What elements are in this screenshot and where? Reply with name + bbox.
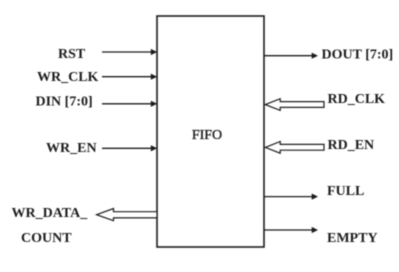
svg-text:DOUT [7:0]: DOUT [7:0]: [322, 48, 394, 63]
svg-text:RST: RST: [58, 47, 86, 62]
svg-text:DIN [7:0]: DIN [7:0]: [36, 95, 93, 110]
wire WR_EN: [102, 145, 157, 151]
wire EMPTY: [264, 227, 318, 233]
wire RST: [102, 49, 157, 55]
svg-text:RD_CLK: RD_CLK: [328, 92, 386, 107]
wire FULL: [264, 194, 318, 200]
label WR_CLK: [37, 70, 99, 85]
svg-text:FULL: FULL: [327, 184, 364, 199]
svg-text:WR_EN: WR_EN: [46, 141, 97, 156]
svg-text:EMPTY: EMPTY: [327, 231, 378, 246]
svg-text:WR_CLK: WR_CLK: [37, 70, 99, 85]
label RST: [58, 47, 86, 62]
wire WR_DATA_COUNT hollow arrow: [97, 209, 157, 221]
wire WR_CLK: [102, 74, 157, 80]
label WR_DATA_: [12, 206, 89, 221]
label DIN [7:0]: [36, 95, 93, 110]
label RD_CLK: [328, 92, 386, 107]
label WR_EN: [46, 141, 97, 156]
label EMPTY: [327, 231, 378, 246]
FIFO block U1: [157, 16, 264, 247]
wire DOUT: [264, 53, 318, 59]
label COUNT: [21, 231, 72, 246]
svg-text:COUNT: COUNT: [21, 231, 72, 246]
svg-text:RD_EN: RD_EN: [328, 138, 375, 153]
svg-text:FIFO: FIFO: [192, 128, 222, 143]
label FIFO: [192, 128, 222, 143]
label RD_EN: [328, 138, 375, 153]
wire DIN: [102, 101, 157, 107]
wire RD_EN hollow arrow: [265, 142, 324, 154]
wire RD_CLK hollow arrow: [265, 99, 324, 111]
label DOUT [7:0]: [322, 48, 394, 63]
svg-text:WR_DATA_: WR_DATA_: [12, 206, 89, 221]
label FULL: [327, 184, 364, 199]
